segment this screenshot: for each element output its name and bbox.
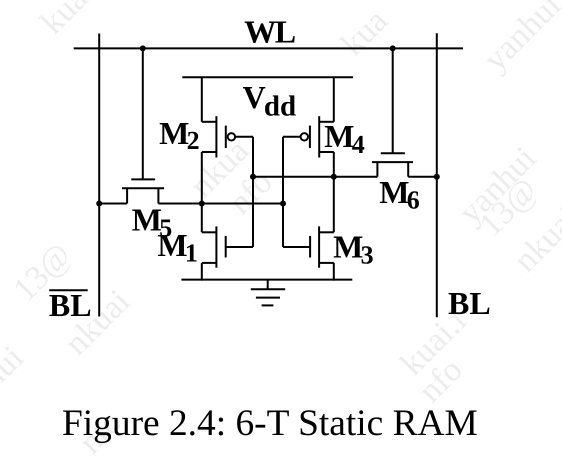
svg-text:dd: dd <box>264 91 296 123</box>
svg-text:BL: BL <box>448 285 491 321</box>
svg-text:kuai: kuai <box>34 0 102 41</box>
svg-text:BL: BL <box>49 287 92 323</box>
svg-text:1: 1 <box>185 239 198 268</box>
svg-text:M: M <box>379 174 409 210</box>
svg-text:M: M <box>159 115 189 151</box>
svg-text:yanhui: yanhui <box>477 0 562 78</box>
svg-text:Figure 2.4: 6-T Static RAM: Figure 2.4: 6-T Static RAM <box>62 403 478 444</box>
svg-text:hui: hui <box>0 339 31 396</box>
svg-text:2: 2 <box>187 126 200 155</box>
svg-text:WL: WL <box>244 14 295 50</box>
svg-text:kua: kua <box>334 2 395 63</box>
svg-text:6: 6 <box>407 186 420 215</box>
svg-text:M: M <box>333 228 363 264</box>
svg-text:M: M <box>157 227 187 263</box>
svg-text:V: V <box>243 79 266 115</box>
svg-text:3: 3 <box>361 241 374 270</box>
svg-text:M: M <box>324 118 354 154</box>
svg-text:4: 4 <box>352 130 365 159</box>
